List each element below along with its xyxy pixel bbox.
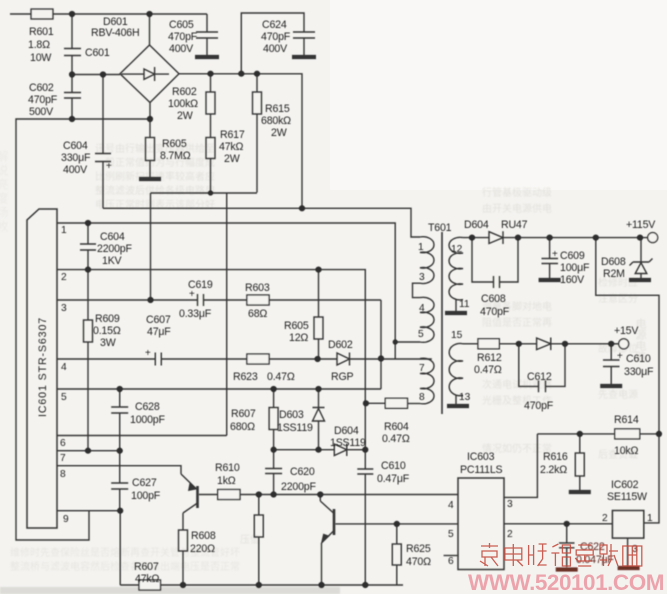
capacitor C627 [111,451,128,511]
svg-text:+: + [552,249,558,260]
capacitor C607 47uF (series) [155,353,161,366]
svg-text:8: 8 [60,469,66,480]
diode D603 1SS119 (vertical) [313,389,325,450]
wire: rectified bus from bridge right [179,74,302,209]
svg-text:8.7MΩ: 8.7MΩ [160,150,191,162]
wire: C627 column to bottom rail [119,511,121,585]
svg-text:5: 5 [418,329,424,340]
diode inside D601 [122,67,170,81]
wire: R614 row [537,433,659,435]
wire: IC601 pin2 line and column to R604/C610 [57,270,365,469]
zener D608 R2M with ground [630,238,653,278]
svg-text:D603: D603 [279,409,304,421]
svg-text:11: 11 [459,299,470,310]
svg-text:680Ω: 680Ω [230,421,255,433]
capacitor C619 (series, electrolytic) [198,294,204,306]
wire: pin15 to R612 [463,343,478,345]
svg-text:R605: R605 [284,320,309,332]
resistor R623 (series) [247,354,269,364]
svg-text:47μF: 47μF [147,326,171,338]
svg-text:13: 13 [459,392,471,403]
svg-text:470pF: 470pF [480,306,510,318]
resistor R615 [256,74,258,92]
svg-text:RU47: RU47 [501,219,528,231]
wire: IC601 pin4 line [57,358,337,360]
svg-text:C609: C609 [560,250,585,262]
svg-text:C601: C601 [85,47,110,59]
svg-text:R625: R625 [406,543,431,555]
svg-text:470pF: 470pF [261,31,291,43]
wire: R617 node down to IC601 pin6 column [226,193,228,436]
resistor R616 with ground [579,434,581,453]
svg-text:470pF: 470pF [524,400,554,412]
svg-text:160V: 160V [560,274,585,286]
svg-text:4: 4 [419,303,425,314]
svg-text:PC111LS: PC111LS [460,464,503,476]
wire: IC601 pin3 line [57,299,381,301]
svg-text:R615: R615 [265,103,290,115]
capacitor C610 0.47uF (series in column) [357,469,373,585]
svg-text:R605: R605 [162,138,187,150]
svg-text:15: 15 [451,330,463,341]
svg-text:C624: C624 [262,19,287,31]
svg-text:5: 5 [448,529,454,540]
svg-text:R601: R601 [29,26,54,38]
svg-text:4: 4 [448,500,454,511]
svg-text:C622: C622 [580,541,605,553]
resistor R605 8.7M with ground [149,119,151,138]
svg-text:9: 9 [63,514,69,525]
svg-text:R604: R604 [384,421,409,433]
resistor R614 [615,429,640,439]
svg-text:470pF: 470pF [168,31,198,43]
transistor Q1 (PNP driver) [196,486,199,508]
svg-text:100kΩ: 100kΩ [168,98,198,110]
resistor R601 [31,9,53,19]
resistor R604 [385,398,407,408]
transistor Q2 (NPN feedback) [333,509,336,535]
svg-text:2.2kΩ: 2.2kΩ [540,464,567,476]
wire: IC601 pin6 line [57,435,227,437]
svg-text:+115V: +115V [626,219,656,231]
resistor R608 [179,530,188,551]
diode D-15V [537,338,619,351]
svg-text:12: 12 [451,244,463,255]
svg-text:整流桥与滤波电容然后检查各路输出端电压是否正常: 整流桥与滤波电容然后检查各路输出端电压是否正常 [10,560,240,573]
svg-text:+: + [189,289,195,300]
svg-text:D604: D604 [334,425,359,437]
svg-text:220Ω: 220Ω [190,543,215,555]
svg-text:1SS119: 1SS119 [330,437,366,449]
svg-text:SE115W: SE115W [607,491,647,503]
svg-text:RGP: RGP [331,371,353,383]
svg-text:2W: 2W [271,127,287,139]
svg-text:R609: R609 [95,313,120,325]
wire: +115V sense line down right edge [596,238,659,523]
svg-text:R2M: R2M [603,268,625,280]
svg-text:68Ω: 68Ω [248,308,267,320]
resistor R609 (on pin2 column) [87,270,89,320]
capacitor C608 loop [472,238,518,288]
svg-text:IC601 STR-S6307: IC601 STR-S6307 [37,317,49,417]
resistor R625 [396,524,398,544]
svg-text:C604: C604 [100,231,125,243]
svg-text:330μF: 330μF [61,152,91,164]
capacitor C620 [265,450,282,495]
svg-text:2200pF: 2200pF [97,243,132,255]
wire: IC603 pin2 to IC602 pin2 [504,523,612,525]
wire: IC602 pin3 to ground [627,538,629,566]
resistor R612 [478,339,499,349]
wire: bottom emitter rail [120,584,403,586]
svg-text:12Ω: 12Ω [289,332,308,344]
wire: IC603 pin3 up to R614 row [504,434,537,498]
wire: IC601 pin5 line [57,388,381,390]
svg-text:0.47Ω: 0.47Ω [474,364,502,376]
wire: winding5 exit to pin1-column node [395,341,420,343]
svg-text:5: 5 [61,392,67,403]
svg-text:3: 3 [419,272,425,283]
capacitor C601 [64,14,81,75]
wire: vertical A pin3 corner down to D602 cathode node [380,300,382,389]
svg-text:WWW.520101.COM: WWW.520101.COM [468,570,664,594]
svg-text:500V: 500V [29,106,54,118]
svg-text:6: 6 [60,438,66,449]
svg-text:1: 1 [61,225,67,236]
svg-text:R602: R602 [172,86,197,98]
wire: IC601 pin7 line [57,450,122,452]
resistor R617 [210,114,212,138]
wire: AC input top rail [10,13,207,15]
svg-text:0.47Ω: 0.47Ω [382,433,410,445]
wire: Q2 base to IC603 pin5 [336,523,459,525]
svg-text:0.47μF: 0.47μF [377,473,410,485]
svg-text:电压正常时则表示该部分好: 电压正常时则表示该部分好 [95,198,215,211]
svg-text:R616: R616 [543,451,568,463]
svg-text:C610: C610 [626,353,651,365]
svg-text:47kΩ: 47kΩ [219,141,243,153]
resistor R-bias (unlabelled) on base line [258,495,260,516]
T601 winding link 3-4 [413,283,421,297]
svg-text:1.8Ω: 1.8Ω [28,39,50,51]
svg-text:C608: C608 [481,293,506,305]
svg-text:0.47Ω: 0.47Ω [267,371,295,383]
svg-text:IC603: IC603 [467,451,495,463]
T601 primary winding 1-3 [420,237,434,284]
capacitor C609 with ground [542,238,559,278]
IC601 body STR-S6307 [27,209,57,528]
svg-text:400V: 400V [169,43,194,55]
svg-text:2: 2 [602,513,608,524]
svg-text:1KV: 1KV [102,255,123,267]
wire: DC+ line to transformer pin1 [103,208,420,237]
resistor R607 680ohm column [273,389,275,408]
junction dots [69,11,75,17]
wire: snubber row y=449.7 [274,449,366,451]
resistor R607 47k (series in bottom rail) [139,580,161,590]
capacitor C624 stub and ground [241,13,315,74]
diode D602 RGP [337,353,432,366]
wire: winding8 to R604 [408,403,421,405]
svg-text:压值: 压值 [240,533,260,546]
svg-text:T601: T601 [428,222,452,234]
svg-text:8: 8 [419,392,425,403]
faint bleed-through text (decorative, approximating scan back-page) [0,142,647,573]
svg-text:47kΩ: 47kΩ [135,573,159,585]
capacitor C622 with ground [559,524,575,567]
svg-text:470pF: 470pF [28,94,58,106]
T601 primary winding 4-5 [420,297,434,342]
svg-text:C620: C620 [290,466,315,478]
svg-text:3: 3 [507,499,513,510]
svg-text:行管基极驱动级: 行管基极驱动级 [482,186,552,199]
terminal +115V [648,233,658,243]
svg-text:0.33μF: 0.33μF [179,308,212,320]
wire: IC601 pin8 line to Q601 [57,466,181,474]
svg-text:+15V: +15V [614,325,639,337]
svg-text:+: + [106,161,112,172]
svg-text:7: 7 [419,363,425,374]
svg-text:2: 2 [507,529,513,540]
capacitor C605 with ground [196,14,218,55]
svg-text:R623: R623 [233,371,258,383]
IC602 body SE115W [612,511,643,539]
svg-text:100μF: 100μF [560,262,590,274]
svg-text:C628: C628 [135,401,160,413]
svg-text:470Ω: 470Ω [406,556,431,568]
resistor R603 (series in pin3 line) [247,295,269,305]
svg-text:10W: 10W [30,52,51,64]
svg-text:+: + [617,351,623,362]
terminal +15V [619,339,629,349]
svg-text:1: 1 [418,242,424,253]
svg-text:D602: D602 [328,339,353,351]
svg-text:4: 4 [61,362,67,373]
svg-text:3W: 3W [100,337,116,349]
svg-text:2200pF: 2200pF [281,481,316,493]
wire: startup join y=193 [151,193,258,300]
svg-text:7: 7 [60,453,66,464]
svg-text:400V: 400V [63,164,88,176]
svg-text:R608: R608 [191,530,216,542]
capacitor C612 loop [519,344,565,393]
svg-text:R607: R607 [134,561,159,573]
svg-text:1: 1 [647,513,653,524]
svg-text:R610: R610 [215,462,240,474]
svg-text:400V: 400V [263,43,288,55]
wire: Q1 base line to IC603 pin4 [199,494,458,496]
svg-text:C604: C604 [63,140,88,152]
svg-text:D608: D608 [601,256,626,268]
svg-text:C607: C607 [146,314,171,326]
svg-text:1SS119: 1SS119 [277,422,313,434]
svg-text:+: + [145,348,151,359]
wire: IC601 pin9 line [57,510,120,512]
wire: pin12 to +115V rail [463,237,489,239]
capacitor C604 2200pF [80,223,96,270]
svg-text:C627: C627 [132,477,157,489]
svg-text:C610: C610 [381,460,406,472]
T601 drive winding 7-8 [420,358,434,404]
diode D604 RU47 [489,231,648,244]
watermark line1 [480,543,642,566]
ground: T601 pin11 [455,300,457,312]
svg-text:R612: R612 [477,352,502,364]
wire: left long return (C602 bottom to IC601 pin9 hook) [16,119,150,540]
wire: IC601 pin1 line to primary bottom node [57,223,395,359]
svg-text:100pF: 100pF [131,490,161,502]
svg-text:2W: 2W [224,153,240,165]
svg-text:注意区分: 注意区分 [598,292,638,305]
svg-text:RBV-406H: RBV-406H [91,27,139,39]
transformer T601 core [441,232,443,414]
svg-text:R617: R617 [220,129,245,141]
svg-text:680kΩ: 680kΩ [261,115,291,127]
svg-text:1000pF: 1000pF [130,414,165,426]
IC603 body PC111LS [458,478,504,570]
capacitor C610 330uF with ground [603,344,620,384]
capacitor C628 [111,389,128,451]
T601 secondary winding 12-11 [449,237,463,300]
svg-text:解说亮度场枚: 解说亮度场枚 [0,150,9,234]
diode D604 1SS119 (series in row) [334,444,347,457]
capacitor C604 330uF reservoir [95,75,111,209]
svg-text:330μF: 330μF [624,366,654,378]
IC603 pin6 stub [444,555,458,557]
svg-text:3: 3 [61,303,67,314]
capacitor C602 [64,75,81,120]
bridge rectifier D601 [120,45,179,103]
svg-text:1kΩ: 1kΩ [217,475,236,487]
svg-text:由开关电源供电: 由开关电源供电 [482,202,552,215]
svg-text:C612: C612 [527,371,552,383]
svg-text:C605: C605 [169,19,194,31]
resistor R610 (series in base line) [218,490,240,500]
resistor R605 12ohm column [318,270,320,317]
svg-text:D604: D604 [464,219,489,231]
resistor R602 [210,74,212,92]
svg-text:R603: R603 [245,282,270,294]
svg-text:10kΩ: 10kΩ [614,445,638,457]
T601 secondary winding 15-13 [449,344,463,396]
svg-text:R607: R607 [231,408,256,420]
svg-text:0.15Ω: 0.15Ω [93,325,121,337]
svg-text:整流滤波后供给各级电路用: 整流滤波后供给各级电路用 [95,184,215,197]
svg-text:C602: C602 [29,82,54,94]
svg-text:R614: R614 [614,414,639,426]
ground: T601 pin13 [455,396,457,405]
svg-text:2: 2 [61,272,67,283]
svg-text:IC602: IC602 [611,479,639,491]
svg-text:6: 6 [448,556,454,567]
svg-text:先查电源: 先查电源 [598,388,638,401]
wire: node row C601-C602 to bridge left [72,74,120,76]
svg-text:2W: 2W [177,110,193,122]
